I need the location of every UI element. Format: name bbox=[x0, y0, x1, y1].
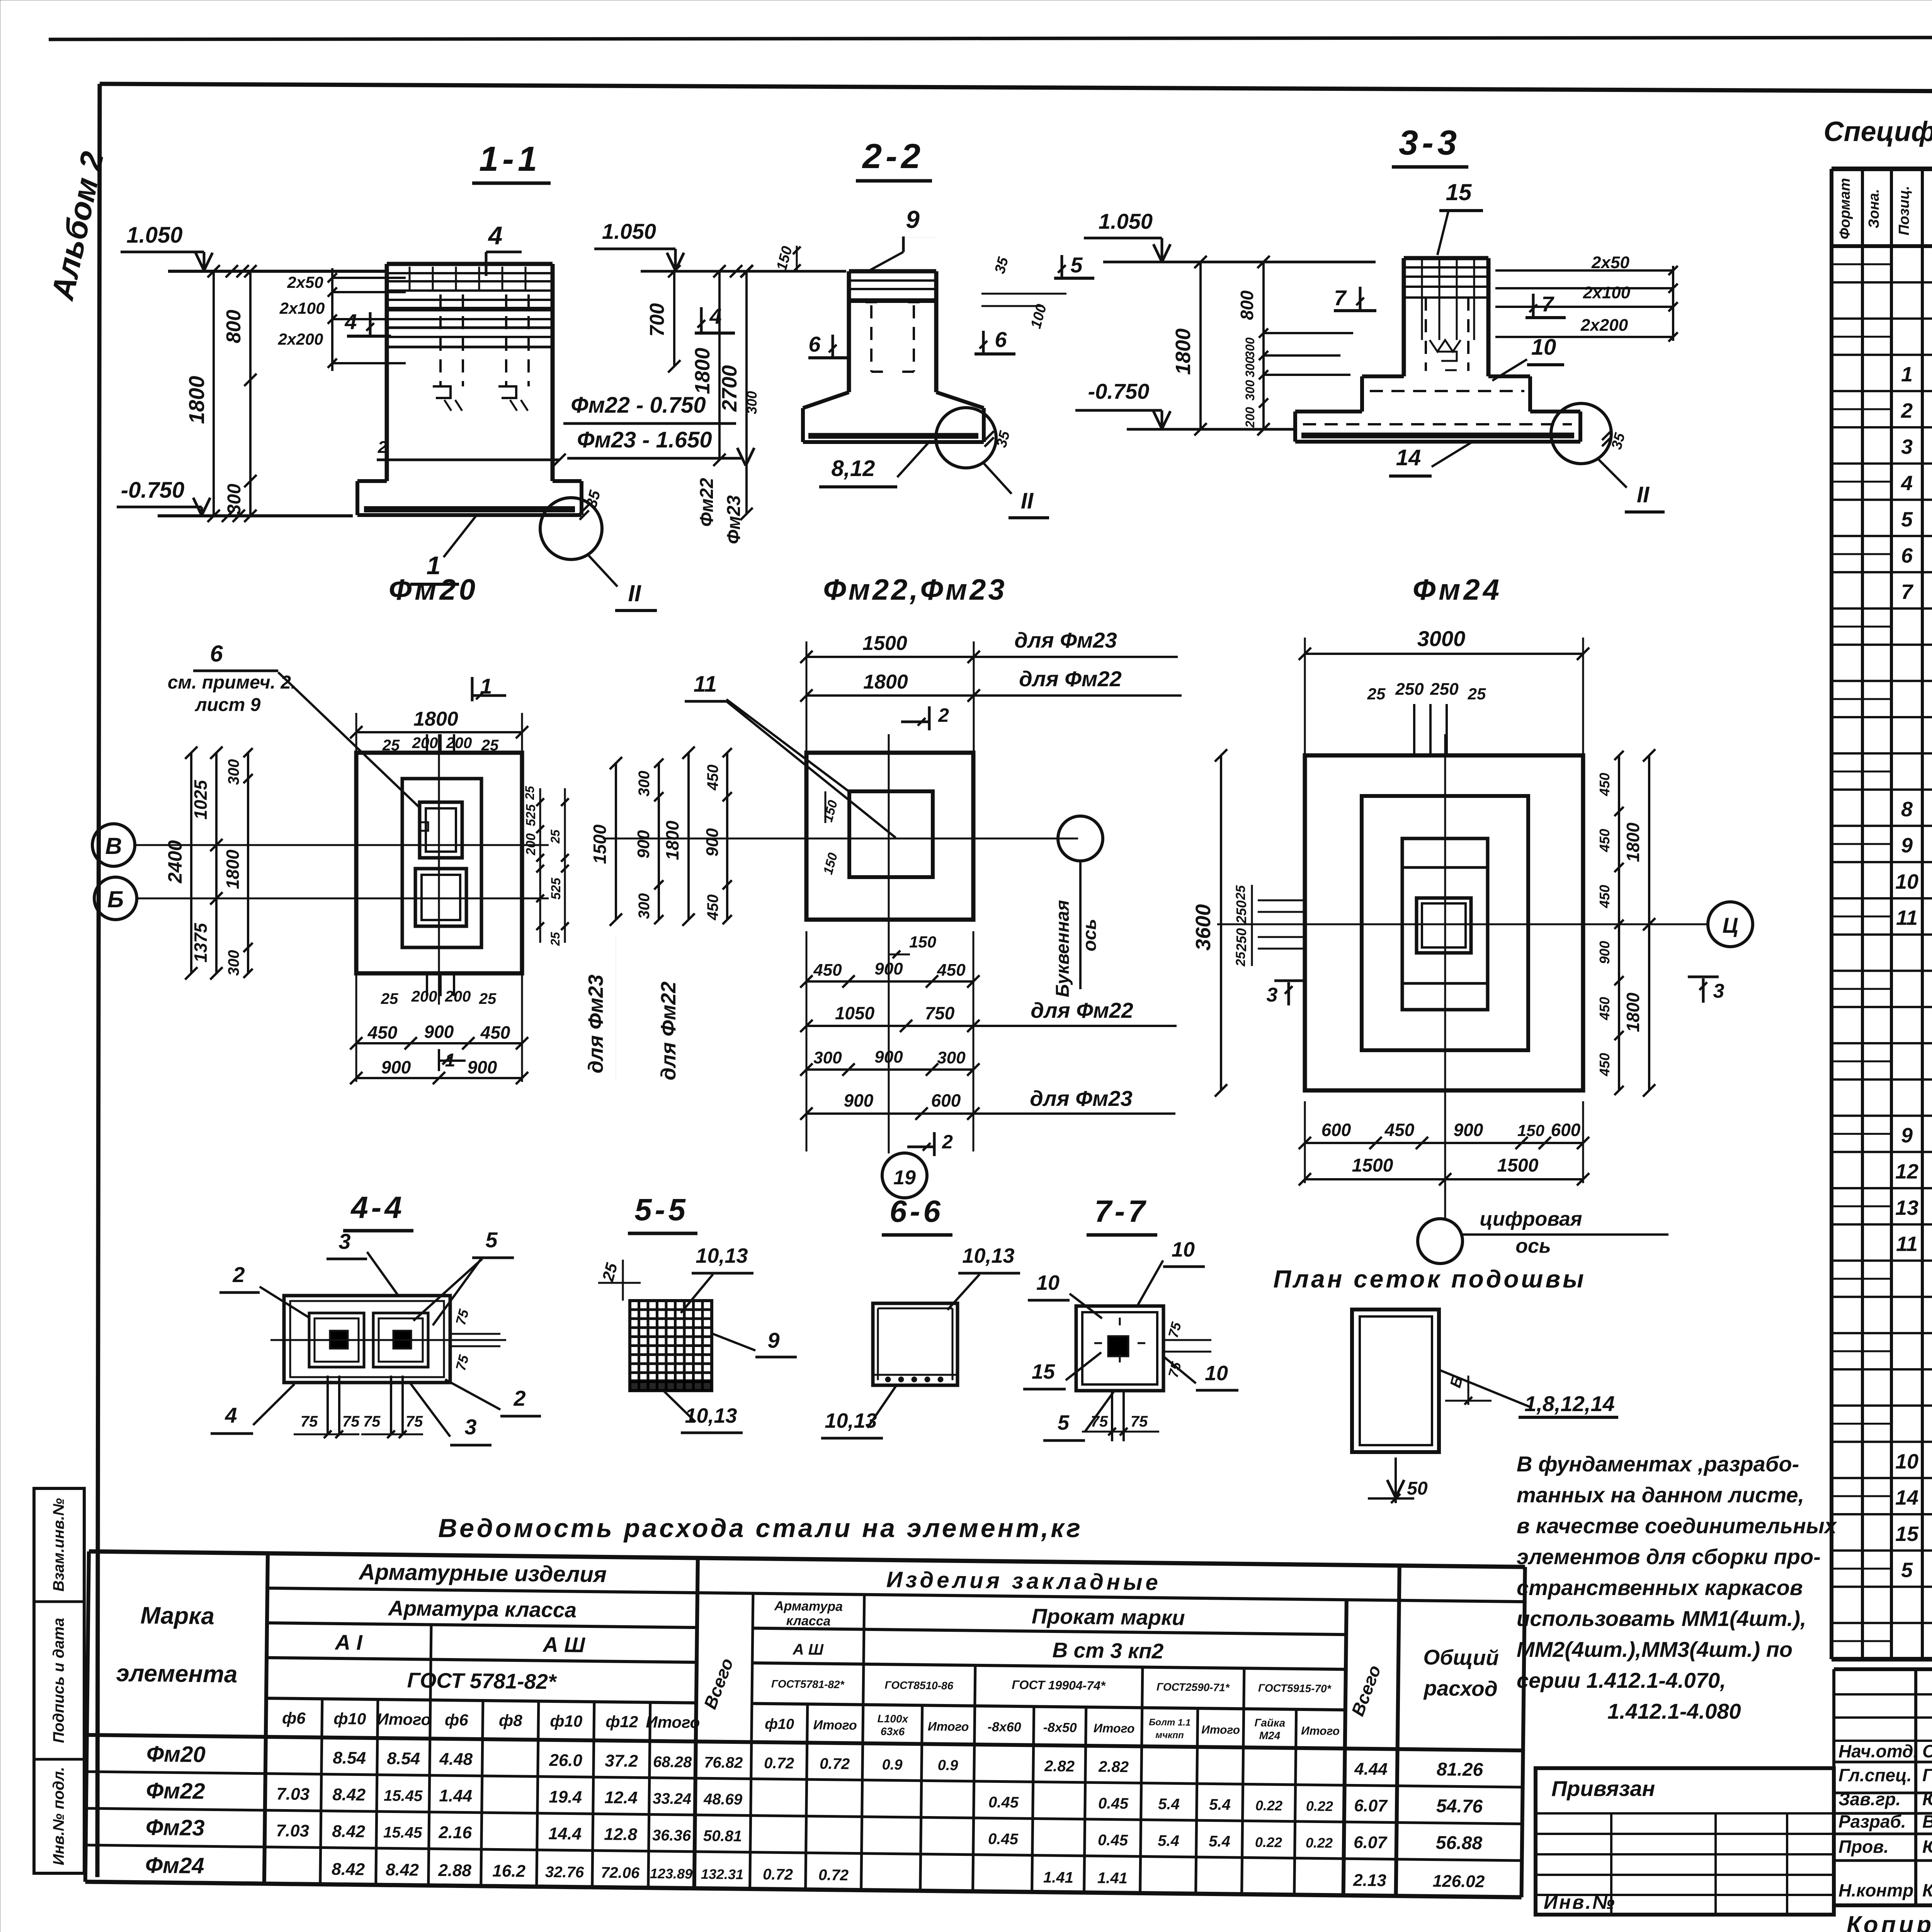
section 1-1 dim 1800 bbox=[213, 271, 215, 516]
svg-text:5.4: 5.4 bbox=[1209, 1833, 1230, 1850]
plan Фм22 bottom dim 450 900 450 bbox=[806, 980, 973, 983]
svg-text:М24: М24 bbox=[1259, 1730, 1281, 1742]
svg-text:5: 5 bbox=[1901, 1559, 1913, 1582]
section 7-7 square bbox=[1076, 1306, 1163, 1391]
svg-text:450: 450 bbox=[367, 1022, 398, 1043]
svg-text:Марка: Марка bbox=[140, 1602, 214, 1629]
section 1-1 sole reinforcement thick line bbox=[364, 506, 575, 512]
svg-text:200: 200 bbox=[524, 833, 538, 856]
svg-text:6: 6 bbox=[808, 332, 821, 356]
svg-text:15: 15 bbox=[1895, 1522, 1919, 1546]
svg-text:Арматурные изделия: Арматурные изделия bbox=[358, 1560, 607, 1587]
svg-text:12: 12 bbox=[1895, 1160, 1918, 1183]
svg-text:900: 900 bbox=[468, 1057, 497, 1077]
svg-text:6: 6 bbox=[995, 327, 1007, 352]
svg-text:750: 750 bbox=[925, 1003, 955, 1023]
svg-text:250: 250 bbox=[1395, 680, 1424, 699]
svg-text:Фм22: Фм22 bbox=[146, 1778, 205, 1804]
svg-text:900: 900 bbox=[703, 828, 722, 857]
svg-text:Юхтовская: Юхтовская bbox=[1922, 1789, 1932, 1809]
svg-text:9: 9 bbox=[906, 206, 920, 233]
svg-text:2: 2 bbox=[938, 704, 949, 726]
svg-text:Итого: Итого bbox=[1301, 1725, 1340, 1738]
svg-text:6.07: 6.07 bbox=[1354, 1833, 1388, 1852]
svg-text:37.2: 37.2 bbox=[605, 1751, 638, 1770]
svg-text:лист 9: лист 9 bbox=[195, 695, 261, 715]
svg-text:ММ2(4шт.),ММ3(4шт.) по: ММ2(4шт.),ММ3(4шт.) по bbox=[1517, 1637, 1793, 1662]
svg-text:Итого: Итого bbox=[377, 1710, 431, 1729]
svg-text:10,13: 10,13 bbox=[962, 1244, 1014, 1267]
svg-text:450: 450 bbox=[937, 961, 966, 980]
svg-text:Инв.№ подл.: Инв.№ подл. bbox=[50, 1767, 67, 1866]
svg-text:1500: 1500 bbox=[862, 632, 907, 655]
svg-text:8.42: 8.42 bbox=[332, 1860, 365, 1879]
plan Фм24 right dim 450 ticks bbox=[1618, 755, 1620, 1090]
sheet frame left border bbox=[97, 84, 100, 1877]
svg-text:Разраб.: Разраб. bbox=[1838, 1811, 1906, 1832]
svg-text:Итого: Итого bbox=[1094, 1721, 1135, 1735]
section 1-1 top level line bbox=[168, 270, 386, 273]
svg-text:ГОСТ2590-71*: ГОСТ2590-71* bbox=[1156, 1681, 1230, 1694]
svg-text:600: 600 bbox=[1321, 1120, 1351, 1140]
section 4-4 right anchor square bbox=[373, 1313, 428, 1367]
svg-text:0.45: 0.45 bbox=[988, 1794, 1019, 1811]
section 1-1 dims 2x50 2x100 2x200 bbox=[331, 268, 333, 371]
spec table row rules bbox=[1832, 281, 1932, 284]
svg-text:2х50: 2х50 bbox=[287, 273, 323, 291]
plan Фм22 top dim 1500 для Фм23 bbox=[806, 656, 974, 658]
svg-text:1500: 1500 bbox=[1352, 1155, 1393, 1176]
svg-text:0.9: 0.9 bbox=[882, 1757, 903, 1773]
svg-text:9: 9 bbox=[767, 1328, 779, 1352]
section 2-2 sole thick line bbox=[808, 433, 978, 439]
svg-text:32.76: 32.76 bbox=[545, 1864, 584, 1881]
section 2-2 column outline bbox=[847, 271, 851, 392]
svg-text:7-7: 7-7 bbox=[1094, 1194, 1148, 1228]
svg-text:0.45: 0.45 bbox=[1098, 1795, 1129, 1812]
svg-text:1.41: 1.41 bbox=[1097, 1869, 1128, 1887]
svg-text:300: 300 bbox=[1243, 357, 1257, 378]
svg-text:7.03: 7.03 bbox=[276, 1821, 309, 1840]
svg-text:5: 5 bbox=[1058, 1411, 1070, 1434]
svg-text:Фм23: Фм23 bbox=[724, 495, 744, 544]
svg-text:в качестве соединительных: в качестве соединительных bbox=[1517, 1514, 1838, 1538]
plan Фм22 outer square bbox=[806, 753, 973, 920]
svg-text:мчкпп: мчкпп bbox=[1155, 1730, 1184, 1741]
svg-text:450: 450 bbox=[813, 961, 842, 980]
svg-text:300: 300 bbox=[636, 893, 653, 919]
svg-text:ф10: ф10 bbox=[765, 1716, 794, 1733]
svg-text:ф6: ф6 bbox=[445, 1711, 469, 1729]
svg-text:ГОСТ 19904-74*: ГОСТ 19904-74* bbox=[1012, 1678, 1106, 1693]
svg-text:Арматура: Арматура bbox=[774, 1599, 843, 1614]
plan Фм24 left dim 3600 bbox=[1220, 755, 1222, 1090]
plan Фм20 axis circle В bbox=[92, 824, 135, 866]
svg-text:300: 300 bbox=[937, 1048, 966, 1067]
svg-text:0.72: 0.72 bbox=[763, 1866, 793, 1883]
svg-text:15.45: 15.45 bbox=[384, 1787, 423, 1804]
svg-text:25: 25 bbox=[1468, 685, 1486, 703]
section 2-2 top level line bbox=[641, 270, 846, 273]
svg-text:ф8: ф8 bbox=[499, 1711, 523, 1730]
svg-text:450: 450 bbox=[1597, 1053, 1612, 1077]
svg-text:250: 250 bbox=[1430, 680, 1459, 699]
svg-text:1050: 1050 bbox=[835, 1003, 875, 1023]
svg-text:1.412.1-4.080: 1.412.1-4.080 bbox=[1607, 1699, 1741, 1723]
svg-text:ф10: ф10 bbox=[333, 1709, 366, 1728]
svg-text:ГОСТ8510-86: ГОСТ8510-86 bbox=[884, 1679, 953, 1692]
svg-text:А I: А I bbox=[334, 1630, 363, 1655]
svg-text:Итого: Итого bbox=[813, 1718, 857, 1733]
svg-text:200: 200 bbox=[1243, 407, 1257, 428]
plan Фм22 axis circle буквенная ось bbox=[1058, 816, 1103, 861]
svg-text:450: 450 bbox=[1597, 885, 1612, 908]
svg-text:3: 3 bbox=[1901, 435, 1913, 459]
svg-text:0.22: 0.22 bbox=[1255, 1834, 1282, 1850]
svg-text:50: 50 bbox=[1407, 1478, 1428, 1499]
svg-text:0.72: 0.72 bbox=[818, 1866, 849, 1884]
svg-text:450: 450 bbox=[1384, 1120, 1415, 1140]
svg-text:0.9: 0.9 bbox=[937, 1757, 958, 1774]
svg-text:15.45: 15.45 bbox=[383, 1824, 422, 1841]
svg-text:0.22: 0.22 bbox=[1306, 1835, 1333, 1851]
section 2-2 detail circle II bbox=[936, 408, 996, 468]
svg-text:Ведомость расхода стали на эле: Ведомость расхода стали на элемент,кг bbox=[438, 1514, 1083, 1543]
svg-text:10,13: 10,13 bbox=[685, 1404, 737, 1427]
svg-text:5.4: 5.4 bbox=[1158, 1796, 1180, 1813]
svg-text:1.050: 1.050 bbox=[602, 219, 656, 243]
plan Фм22 left dim 450 900 450 bbox=[726, 753, 728, 920]
svg-text:25: 25 bbox=[548, 829, 562, 844]
plan Фм22 bottom dim 900 600 для Фм23 bbox=[806, 1112, 973, 1115]
plan Фм24 centerlines bbox=[1217, 923, 1708, 925]
steel table verticals bbox=[85, 1551, 89, 1882]
svg-text:150: 150 bbox=[909, 933, 936, 951]
svg-text:-8х60: -8х60 bbox=[988, 1719, 1021, 1735]
svg-text:Фм20: Фм20 bbox=[389, 573, 478, 606]
top trim line bbox=[49, 37, 1932, 39]
svg-text:300: 300 bbox=[1243, 337, 1257, 358]
svg-text:14.4: 14.4 bbox=[548, 1824, 582, 1844]
svg-text:150: 150 bbox=[1517, 1121, 1544, 1139]
svg-text:2.82: 2.82 bbox=[1098, 1758, 1129, 1776]
svg-text:класса: класса bbox=[786, 1614, 831, 1629]
svg-text:300: 300 bbox=[813, 1048, 842, 1067]
svg-text:3-3: 3-3 bbox=[1399, 124, 1461, 162]
plan Фм24 bottom axis circle bbox=[1418, 1219, 1463, 1264]
svg-text:800: 800 bbox=[223, 310, 245, 344]
plan Фм20 centerlines bbox=[136, 844, 549, 846]
svg-text:Формат: Формат bbox=[1837, 178, 1853, 240]
svg-text:Фм24: Фм24 bbox=[1413, 573, 1502, 606]
svg-text:48.69: 48.69 bbox=[703, 1791, 743, 1808]
svg-text:Прокат марки: Прокат марки bbox=[1032, 1604, 1185, 1629]
svg-text:900: 900 bbox=[874, 959, 903, 978]
svg-text:900: 900 bbox=[844, 1090, 874, 1111]
svg-text:В ст 3 кп2: В ст 3 кп2 bbox=[1052, 1638, 1164, 1663]
svg-text:10: 10 bbox=[1531, 335, 1556, 360]
svg-text:0.72: 0.72 bbox=[764, 1755, 794, 1772]
svg-text:4.48: 4.48 bbox=[439, 1750, 473, 1769]
section 3-3 sole thick line bbox=[1301, 433, 1574, 439]
svg-text:1.41: 1.41 bbox=[1043, 1869, 1073, 1886]
svg-text:10,13: 10,13 bbox=[825, 1409, 877, 1432]
svg-text:7: 7 bbox=[1334, 286, 1347, 310]
plan Фм20 inner rectangle bbox=[402, 779, 481, 947]
section 4-4 left anchor square bbox=[309, 1313, 364, 1367]
svg-text:525: 525 bbox=[549, 878, 563, 900]
svg-text:0.22: 0.22 bbox=[1255, 1798, 1283, 1814]
svg-text:25: 25 bbox=[1367, 685, 1386, 703]
svg-text:2х200: 2х200 bbox=[278, 330, 323, 348]
svg-text:5.4: 5.4 bbox=[1158, 1832, 1179, 1850]
section 3-3 left dim 1800 bbox=[1199, 262, 1202, 429]
svg-text:13: 13 bbox=[1895, 1196, 1918, 1219]
svg-text:4: 4 bbox=[488, 221, 503, 250]
svg-text:Катенко: Катенко bbox=[1922, 1880, 1932, 1900]
plan Фм24 top dim 3000 bbox=[1305, 653, 1583, 655]
svg-text:2х100: 2х100 bbox=[279, 299, 325, 317]
svg-text:1.44: 1.44 bbox=[439, 1786, 472, 1806]
plan Фм20 bottom dim 900 900 bbox=[356, 1077, 522, 1079]
svg-text:250: 250 bbox=[1233, 928, 1249, 952]
svg-text:Общий: Общий bbox=[1423, 1645, 1499, 1670]
plan Фм20 right dim column small bbox=[539, 788, 541, 943]
plan Фм22 axis circle 19 bbox=[882, 1153, 927, 1198]
svg-text:План сеток подошвы: План сеток подошвы bbox=[1273, 1265, 1586, 1293]
plan Фм22 bottom dim 1050 750 для Фм22 bbox=[806, 1025, 973, 1027]
svg-text:1800: 1800 bbox=[223, 849, 243, 889]
svg-text:Н.контр.: Н.контр. bbox=[1838, 1880, 1918, 1900]
filing strip box bbox=[34, 1488, 84, 1873]
svg-text:0.45: 0.45 bbox=[1098, 1832, 1128, 1849]
svg-text:3: 3 bbox=[1267, 984, 1278, 1006]
svg-text:1800: 1800 bbox=[1623, 992, 1643, 1032]
sheet frame top border bbox=[100, 84, 1932, 94]
section 3-3 hidden dashed lines bbox=[1370, 390, 1524, 392]
svg-text:Болт 1.1: Болт 1.1 bbox=[1149, 1717, 1190, 1728]
section 4-4 anchor bolts below bbox=[328, 1376, 403, 1434]
svg-text:Гейдман: Гейдман bbox=[1922, 1765, 1932, 1785]
svg-text:Подпись и дата: Подпись и дата bbox=[50, 1618, 67, 1743]
plan Фм20 left dim 300 1800 300 bbox=[247, 753, 249, 973]
svg-text:2: 2 bbox=[942, 1131, 953, 1153]
section 2-2 column top lines bbox=[849, 279, 936, 282]
svg-text:8.54: 8.54 bbox=[387, 1749, 420, 1768]
svg-text:250: 250 bbox=[1233, 900, 1249, 924]
svg-text:Итого: Итого bbox=[928, 1719, 969, 1734]
svg-text:1500: 1500 bbox=[590, 824, 610, 864]
svg-text:15: 15 bbox=[1032, 1360, 1055, 1383]
plan Фм24 middle rectangle bbox=[1362, 796, 1528, 1050]
svg-text:расход: расход bbox=[1423, 1676, 1498, 1701]
svg-text:200: 200 bbox=[445, 988, 471, 1005]
steel table horizontals bbox=[89, 1551, 1525, 1567]
section 1-1 base slab bbox=[357, 479, 387, 483]
svg-text:4: 4 bbox=[344, 310, 357, 334]
section 3-3 step1 bbox=[1362, 374, 1404, 378]
svg-text:Взам.инв.№: Взам.инв.№ bbox=[50, 1498, 67, 1592]
plan Фм24 right dim 1800 1800 bbox=[1648, 755, 1650, 1090]
svg-text:цифровая: цифровая bbox=[1480, 1208, 1582, 1230]
svg-text:5: 5 bbox=[1901, 508, 1913, 531]
plan Фм22 top dim 1800 для Фм22 bbox=[806, 694, 974, 697]
svg-text:63х6: 63х6 bbox=[881, 1725, 905, 1738]
svg-text:9: 9 bbox=[1901, 834, 1913, 857]
plan Фм22 left dim 1800 bbox=[687, 753, 690, 920]
svg-text:14: 14 bbox=[1895, 1486, 1918, 1509]
svg-text:Фм20: Фм20 bbox=[146, 1742, 206, 1767]
svg-text:серии 1.412.1-4.070,: серии 1.412.1-4.070, bbox=[1517, 1668, 1726, 1692]
svg-text:300: 300 bbox=[636, 771, 653, 797]
svg-text:Зона.: Зона. bbox=[1866, 189, 1882, 228]
section 3-3 column mesh bbox=[1404, 266, 1488, 269]
svg-text:1800: 1800 bbox=[662, 820, 682, 860]
svg-text:В фундаментах ,разрабо-: В фундаментах ,разрабо- bbox=[1517, 1452, 1799, 1476]
svg-text:Онуфриенко: Онуфриенко bbox=[1922, 1741, 1932, 1761]
svg-text:81.26: 81.26 bbox=[1437, 1759, 1483, 1780]
svg-text:1: 1 bbox=[1901, 363, 1913, 386]
svg-text:700: 700 bbox=[646, 303, 668, 337]
svg-text:для Фм22: для Фм22 bbox=[657, 981, 680, 1080]
svg-text:300: 300 bbox=[225, 950, 242, 976]
svg-text:68.28: 68.28 bbox=[653, 1753, 692, 1771]
svg-text:4: 4 bbox=[224, 1403, 237, 1427]
svg-text:для Фм22: для Фм22 bbox=[1019, 667, 1121, 691]
svg-text:2: 2 bbox=[513, 1386, 526, 1410]
svg-text:8.42: 8.42 bbox=[332, 1822, 366, 1841]
svg-text:75: 75 bbox=[342, 1413, 360, 1430]
svg-text:В: В bbox=[105, 833, 122, 859]
plan Фм22 left dim 300 900 300 bbox=[658, 763, 660, 920]
svg-text:2х50: 2х50 bbox=[1591, 253, 1629, 272]
svg-text:ф10: ф10 bbox=[550, 1712, 582, 1730]
svg-text:1025: 1025 bbox=[190, 779, 211, 820]
svg-text:56.88: 56.88 bbox=[1436, 1833, 1483, 1854]
plan Фм20 upper anchor square bbox=[420, 802, 462, 858]
svg-text:странственных каркасов: странственных каркасов bbox=[1517, 1575, 1803, 1600]
section 1-1 column outline bbox=[385, 264, 389, 481]
svg-text:5: 5 bbox=[1070, 253, 1083, 277]
section 3-3 top level line bbox=[1103, 261, 1376, 264]
plan Фм24 mesh lines bbox=[1402, 866, 1488, 869]
svg-text:11: 11 bbox=[1896, 1233, 1918, 1256]
section 2-2 base flare bbox=[803, 392, 849, 408]
svg-text:7.03: 7.03 bbox=[276, 1784, 310, 1804]
plan Фм22 inner square bbox=[849, 791, 933, 877]
svg-text:Фм22 - 0.750: Фм22 - 0.750 bbox=[571, 393, 706, 418]
svg-text:10: 10 bbox=[1895, 1450, 1918, 1473]
svg-text:1800: 1800 bbox=[413, 708, 458, 730]
svg-text:Буквенная: Буквенная bbox=[1053, 900, 1073, 997]
svg-text:11: 11 bbox=[694, 672, 717, 697]
svg-text:26.0: 26.0 bbox=[549, 1751, 583, 1770]
svg-text:А Ш: А Ш bbox=[542, 1633, 586, 1657]
svg-text:25: 25 bbox=[381, 990, 398, 1007]
title block left box Привязан bbox=[1536, 1768, 1834, 1915]
svg-text:Б: Б bbox=[107, 886, 124, 912]
svg-text:танных на данном листе,: танных на данном листе, bbox=[1517, 1483, 1804, 1507]
svg-text:Итого: Итого bbox=[1201, 1723, 1240, 1736]
svg-text:75: 75 bbox=[301, 1413, 318, 1430]
plan Фм24 bottom dims 1500 1500 bbox=[1305, 1178, 1583, 1180]
svg-text:Арматура класса: Арматура класса bbox=[387, 1596, 577, 1622]
svg-text:2400: 2400 bbox=[164, 840, 186, 883]
svg-text:10,13: 10,13 bbox=[696, 1244, 748, 1267]
svg-text:9: 9 bbox=[1901, 1124, 1913, 1147]
plan Фм22 centerlines bbox=[603, 838, 1078, 840]
plan Фм24 center anchor square bbox=[1417, 898, 1471, 953]
svg-text:12.8: 12.8 bbox=[604, 1825, 638, 1844]
svg-text:для Фм23: для Фм23 bbox=[1030, 1086, 1132, 1111]
svg-text:Итого: Итого bbox=[646, 1713, 700, 1732]
svg-text:7: 7 bbox=[1901, 580, 1914, 604]
svg-text:8.42: 8.42 bbox=[386, 1860, 419, 1879]
svg-text:900: 900 bbox=[381, 1057, 411, 1077]
spec table narrow column half rules bbox=[1832, 263, 1891, 265]
plan Фм20 left dim column 1025 1375 bbox=[215, 753, 218, 973]
svg-text:8: 8 bbox=[1901, 798, 1913, 821]
svg-text:5: 5 bbox=[485, 1228, 498, 1252]
svg-text:-0.750: -0.750 bbox=[1088, 379, 1150, 403]
section 1-1 detail circle II bbox=[540, 498, 602, 560]
svg-text:Изделия закладные: Изделия закладные bbox=[886, 1567, 1162, 1595]
svg-text:Гайка: Гайка bbox=[1254, 1717, 1285, 1729]
svg-text:3: 3 bbox=[464, 1415, 476, 1439]
svg-text:16.2: 16.2 bbox=[492, 1861, 526, 1881]
svg-text:132.31: 132.31 bbox=[701, 1866, 744, 1882]
svg-text:2.82: 2.82 bbox=[1044, 1758, 1075, 1775]
svg-text:900: 900 bbox=[1597, 941, 1612, 964]
section 5-5 mesh square bbox=[630, 1301, 712, 1391]
svg-text:для Фм23: для Фм23 bbox=[584, 975, 607, 1073]
svg-text:75: 75 bbox=[1131, 1413, 1148, 1430]
svg-text:8.54: 8.54 bbox=[333, 1748, 366, 1768]
svg-text:-0.750: -0.750 bbox=[121, 478, 184, 503]
svg-text:Ц: Ц bbox=[1723, 913, 1738, 937]
plan Фм20 outer rectangle bbox=[356, 753, 522, 973]
svg-text:Привязан: Привязан bbox=[1551, 1776, 1655, 1801]
svg-text:10: 10 bbox=[1036, 1271, 1060, 1294]
plan Фм20 axis circle Б bbox=[94, 877, 137, 920]
svg-text:123.89: 123.89 bbox=[650, 1866, 693, 1882]
svg-text:ГОСТ5781-82*: ГОСТ5781-82* bbox=[771, 1678, 845, 1690]
svg-text:3: 3 bbox=[1713, 980, 1725, 1002]
plan Фм24 left dims 25 250 250 25 bbox=[1251, 885, 1253, 966]
svg-text:1800: 1800 bbox=[1623, 822, 1643, 862]
section 3-3 detail circle II bbox=[1551, 403, 1611, 464]
svg-text:1800: 1800 bbox=[1172, 328, 1195, 375]
svg-text:Позиц.: Позиц. bbox=[1896, 186, 1912, 235]
svg-text:А Ш: А Ш bbox=[793, 1641, 824, 1658]
svg-text:0.45: 0.45 bbox=[988, 1830, 1019, 1848]
svg-text:2х100: 2х100 bbox=[1583, 283, 1631, 302]
svg-text:ось: ось bbox=[1515, 1235, 1551, 1257]
svg-text:элемента: элемента bbox=[116, 1660, 238, 1688]
plan Фм22 bottom dim 300 900 300 bbox=[806, 1068, 973, 1071]
svg-text:1-1: 1-1 bbox=[479, 140, 541, 179]
svg-text:900: 900 bbox=[634, 830, 653, 859]
svg-text:900: 900 bbox=[874, 1048, 903, 1066]
section 1-1 column top reinforcement lines bbox=[387, 272, 553, 274]
mesh rectangle leader and label bbox=[1439, 1370, 1531, 1407]
section 4-4 center line bbox=[270, 1339, 506, 1341]
svg-text:ф6: ф6 bbox=[282, 1709, 306, 1727]
svg-text:6.07: 6.07 bbox=[1354, 1796, 1388, 1815]
svg-text:6: 6 bbox=[210, 641, 223, 667]
svg-text:50.81: 50.81 bbox=[703, 1827, 742, 1845]
svg-text:использовать ММ1(4шт.),: использовать ММ1(4шт.), bbox=[1517, 1606, 1806, 1631]
